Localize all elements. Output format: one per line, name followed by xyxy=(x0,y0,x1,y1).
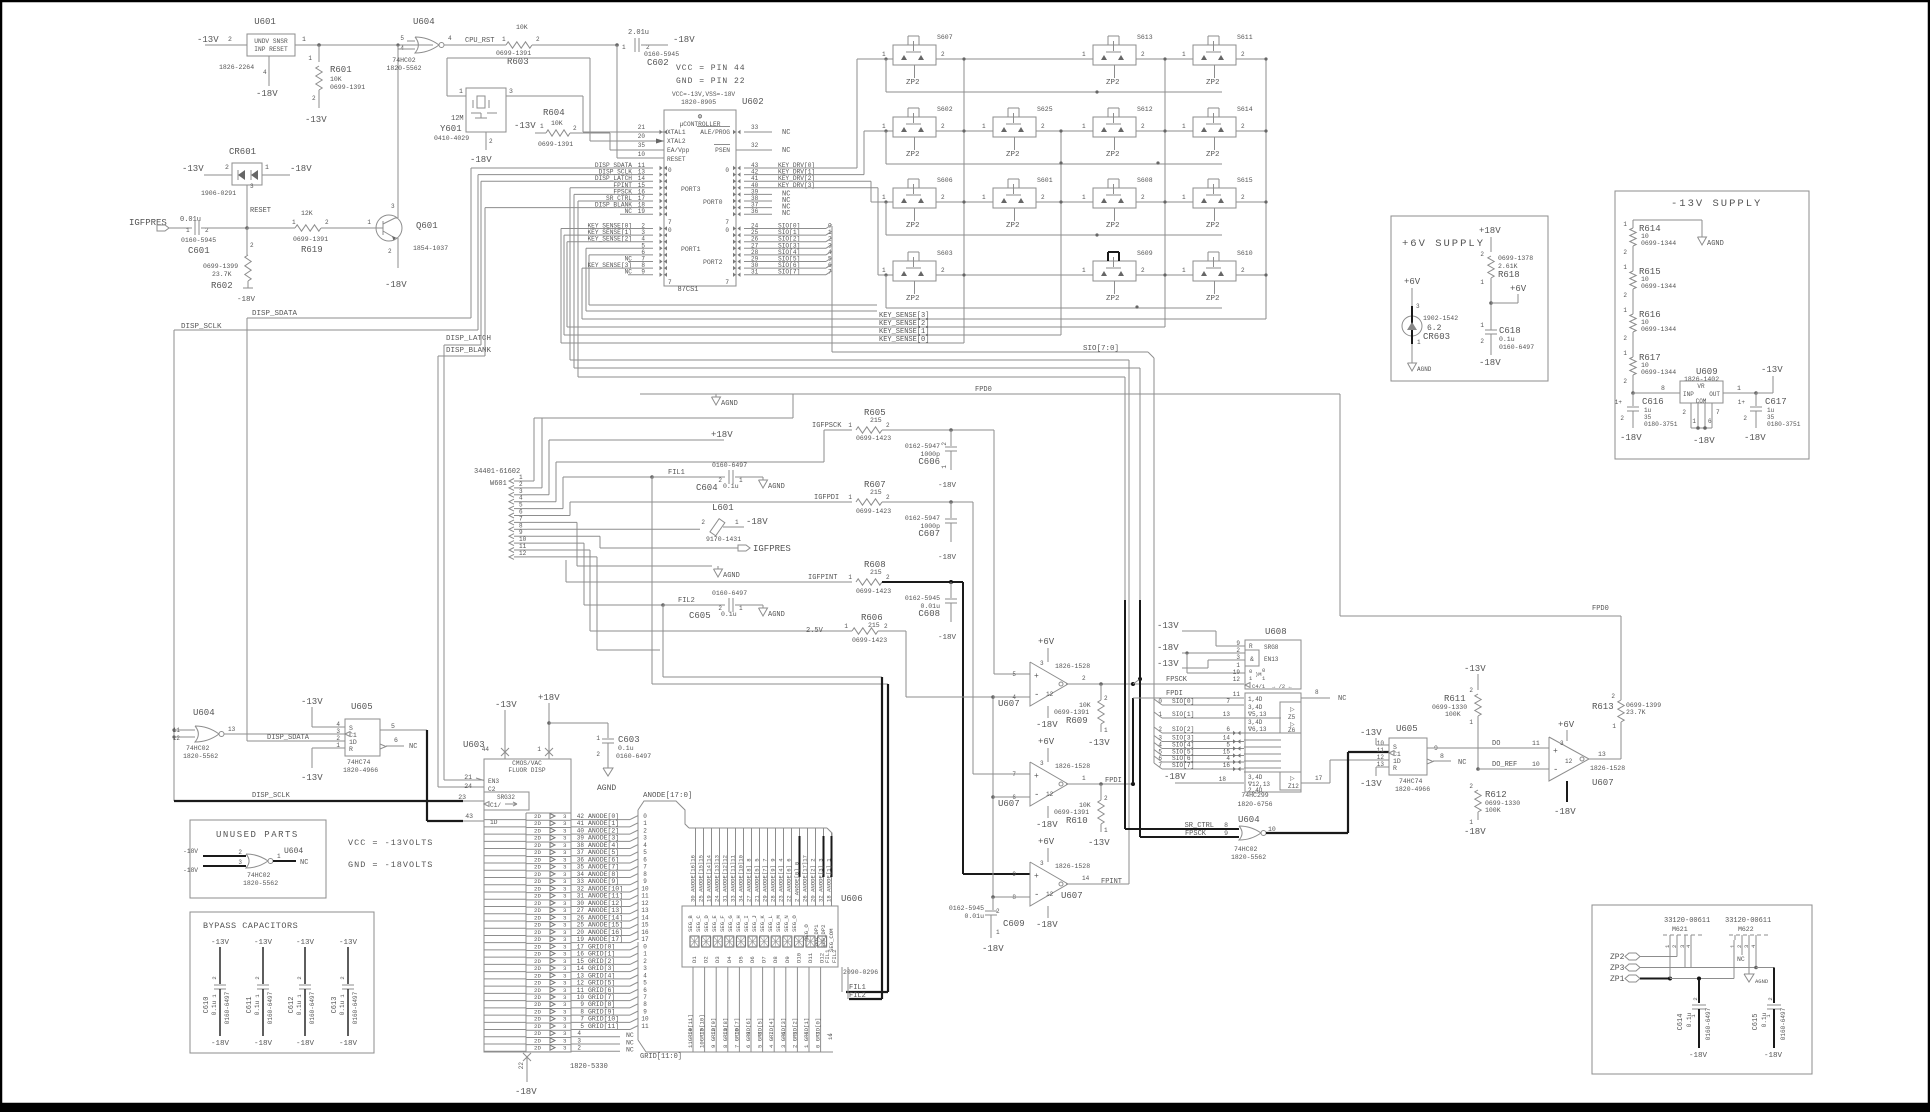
svg-text:215: 215 xyxy=(870,417,882,424)
svg-text:2D: 2D xyxy=(534,972,541,979)
svg-text:+18V: +18V xyxy=(1479,226,1501,236)
svg-text:12: 12 xyxy=(1565,758,1573,765)
svg-text:7: 7 xyxy=(768,1032,775,1035)
wire key matrix columns xyxy=(963,59,965,343)
svg-text:1906-0291: 1906-0291 xyxy=(201,190,236,197)
svg-text:3,4D: 3,4D xyxy=(1248,704,1263,711)
svg-text:3: 3 xyxy=(563,1008,567,1015)
svg-text:DISP_SCLK: DISP_SCLK xyxy=(252,792,291,800)
svg-text:26 ANODE[17]17: 26 ANODE[17]17 xyxy=(802,855,809,902)
svg-text:U607: U607 xyxy=(1061,891,1083,901)
svg-text:2: 2 xyxy=(1141,123,1145,130)
svg-text:XTAL1: XTAL1 xyxy=(667,129,686,136)
svg-text:C603: C603 xyxy=(618,735,640,745)
svg-text:12M: 12M xyxy=(451,115,464,123)
box ZP connectors xyxy=(1592,905,1812,1074)
svg-text:-18V: -18V xyxy=(938,634,957,642)
svg-text:1: 1 xyxy=(1082,775,1086,782)
svg-text:3: 3 xyxy=(563,1037,567,1044)
svg-text:NC: NC xyxy=(782,210,790,218)
svg-text:+6V: +6V xyxy=(1038,737,1055,747)
svg-text:25 ANODE[15]15: 25 ANODE[15]15 xyxy=(698,855,705,902)
key switch S612 xyxy=(1093,117,1136,137)
svg-text:13: 13 xyxy=(228,726,236,733)
svg-text:2D: 2D xyxy=(534,922,541,929)
wire opamp3 inputs xyxy=(993,896,1030,898)
net FIL1 bold vertical xyxy=(887,684,889,992)
svg-text:3: 3 xyxy=(391,203,395,210)
svg-text:21: 21 xyxy=(464,774,472,781)
svg-text:U601: U601 xyxy=(254,17,276,27)
svg-text:2: 2 xyxy=(1241,194,1245,201)
key switch S610 xyxy=(1193,261,1236,281)
wire grid comb 2 xyxy=(715,967,717,1052)
svg-text:ANODE[10]: ANODE[10] xyxy=(588,885,623,892)
svg-text:U604: U604 xyxy=(193,708,215,718)
svg-text:0: 0 xyxy=(643,813,647,820)
wire anode comb 15 xyxy=(815,828,817,906)
svg-text:-13V: -13V xyxy=(296,939,315,947)
svg-text:0.1u: 0.1u xyxy=(296,1000,303,1015)
capacitor C615 xyxy=(1767,1004,1781,1006)
svg-text:1: 1 xyxy=(1469,719,1473,726)
svg-text:3: 3 xyxy=(1040,860,1044,867)
svg-text:74HC02: 74HC02 xyxy=(186,745,210,752)
svg-text:3: 3 xyxy=(336,728,340,735)
pin 8 of W601 xyxy=(509,527,514,532)
svg-text:32: 32 xyxy=(751,142,759,149)
svg-text:12K: 12K xyxy=(301,210,313,217)
pin 2 of W601 xyxy=(509,485,514,490)
svg-text:43: 43 xyxy=(465,813,473,820)
svg-text:3: 3 xyxy=(563,929,567,936)
svg-text:DO_REF: DO_REF xyxy=(1492,761,1517,769)
svg-text:1: 1 xyxy=(459,88,463,95)
svg-text:9: 9 xyxy=(643,1008,647,1015)
svg-text:0699-1391: 0699-1391 xyxy=(496,50,531,57)
svg-text:3: 3 xyxy=(1040,760,1044,767)
svg-text:5: 5 xyxy=(400,35,404,42)
svg-text:2: 2 xyxy=(643,958,647,965)
svg-text:-: - xyxy=(1553,765,1558,775)
svg-text:SIO[0]: SIO[0] xyxy=(1172,698,1194,705)
svg-text:12: 12 xyxy=(1046,891,1054,898)
svg-text:FIL2: FIL2 xyxy=(831,950,838,963)
svg-text:C614: C614 xyxy=(1677,1014,1685,1031)
key switch S606 xyxy=(893,188,936,208)
svg-text:1: 1 xyxy=(982,123,986,130)
svg-text:3: 3 xyxy=(563,1030,567,1037)
svg-text:74HC02: 74HC02 xyxy=(1234,846,1258,853)
svg-text:FIL1: FIL1 xyxy=(824,949,831,963)
pin 11 of W601 xyxy=(509,548,514,553)
svg-text:1: 1 xyxy=(848,494,852,501)
svg-text:2: 2 xyxy=(325,219,329,226)
svg-text:5: 5 xyxy=(580,1023,584,1030)
svg-text:R609: R609 xyxy=(1066,716,1088,726)
wire Y601 pin2 to -18V xyxy=(485,132,487,150)
transistor Q601 xyxy=(376,215,402,241)
svg-text:2: 2 xyxy=(1241,123,1245,130)
svg-text:0180-3751: 0180-3751 xyxy=(1644,421,1678,428)
svg-text:0699-1330: 0699-1330 xyxy=(1432,704,1467,711)
svg-text:C609: C609 xyxy=(1003,919,1025,929)
svg-text:1: 1 xyxy=(1737,385,1741,392)
svg-text:6: 6 xyxy=(780,1032,787,1035)
svg-text:3: 3 xyxy=(563,972,567,979)
svg-text:ZP2: ZP2 xyxy=(1206,79,1220,87)
svg-text:1: 1 xyxy=(1104,827,1108,834)
svg-text:4: 4 xyxy=(643,842,647,849)
svg-text:6: 6 xyxy=(1226,726,1230,733)
wire W601 pin12 xyxy=(527,556,597,558)
svg-text:CPU_RST: CPU_RST xyxy=(465,37,494,45)
wire U601 ground lead xyxy=(268,56,270,86)
svg-text:0699-1423: 0699-1423 xyxy=(856,508,891,515)
svg-text:DISP_LATCH: DISP_LATCH xyxy=(446,335,491,343)
svg-text:∇6,13: ∇6,13 xyxy=(1247,726,1267,733)
svg-text:28 ANODE[9] 9: 28 ANODE[9] 9 xyxy=(770,858,777,902)
svg-text:2: 2 xyxy=(701,519,705,526)
wire DISP_SDATA to U605 xyxy=(247,740,345,742)
svg-text:2: 2 xyxy=(296,976,303,979)
ground AGND top middle xyxy=(715,394,717,397)
svg-text:AGND: AGND xyxy=(723,572,740,580)
svg-text:-18V: -18V xyxy=(254,1040,273,1048)
svg-text:-18V: -18V xyxy=(515,1087,537,1097)
capacitor C617 xyxy=(1755,393,1757,406)
svg-text:0: 0 xyxy=(1262,667,1265,674)
svg-text:ANODE[6]: ANODE[6] xyxy=(588,856,619,863)
svg-text:2: 2 xyxy=(1241,51,1245,58)
ground AGND -13V supply xyxy=(1701,234,1703,237)
svg-text:0.1u: 0.1u xyxy=(254,1000,261,1015)
svg-text:2D: 2D xyxy=(534,893,541,900)
svg-text:1854-1037: 1854-1037 xyxy=(413,245,448,252)
svg-text:0699-1344: 0699-1344 xyxy=(1641,240,1676,247)
svg-text:SEG_G: SEG_G xyxy=(727,915,734,932)
svg-text:R: R xyxy=(1393,765,1397,772)
svg-text:2D: 2D xyxy=(534,820,541,827)
svg-text:CR603: CR603 xyxy=(1423,332,1450,342)
svg-text:+: + xyxy=(1034,872,1039,881)
svg-text:PORT3: PORT3 xyxy=(681,186,701,193)
svg-text:3: 3 xyxy=(563,914,567,921)
svg-text:0699-1423: 0699-1423 xyxy=(856,588,891,595)
svg-text:1820-6756: 1820-6756 xyxy=(1237,801,1272,808)
svg-text:2: 2 xyxy=(1767,997,1774,1000)
svg-text:GND = -18VOLTS: GND = -18VOLTS xyxy=(348,860,433,870)
svg-text:-13V: -13V xyxy=(514,121,536,131)
svg-text:1u: 1u xyxy=(1767,407,1775,414)
svg-text:PORT1: PORT1 xyxy=(681,246,701,253)
svg-text:U603: U603 xyxy=(463,740,485,750)
svg-text:4: 4 xyxy=(643,972,647,979)
svg-text:36: 36 xyxy=(577,856,585,863)
key switch S607 xyxy=(893,45,936,65)
svg-text:NC: NC xyxy=(626,1039,634,1046)
svg-text:D7: D7 xyxy=(761,956,768,963)
svg-text:24: 24 xyxy=(464,783,472,790)
svg-text:0699-1399: 0699-1399 xyxy=(1626,702,1661,709)
svg-text:SIO[4]: SIO[4] xyxy=(1172,742,1194,749)
wire W601 pin1 to FPD0 xyxy=(527,480,534,482)
svg-text:S610: S610 xyxy=(1237,250,1253,257)
svg-text:0699-1399: 0699-1399 xyxy=(203,263,238,270)
svg-text:0162-5947: 0162-5947 xyxy=(905,515,940,522)
pin 4 of W601 xyxy=(509,499,514,504)
resistor R602 xyxy=(246,228,248,255)
key switch S611 xyxy=(1193,45,1236,65)
svg-text:20: 20 xyxy=(577,929,585,936)
svg-text:C617: C617 xyxy=(1765,397,1787,407)
pin 1 of W601 xyxy=(509,479,514,484)
svg-text:1: 1 xyxy=(739,477,743,484)
svg-text:1: 1 xyxy=(1692,418,1696,425)
svg-text:0699-1423: 0699-1423 xyxy=(856,435,891,442)
svg-text:D1: D1 xyxy=(691,956,698,963)
svg-text:9: 9 xyxy=(745,1032,752,1035)
svg-text:3: 3 xyxy=(563,871,567,878)
svg-text:30 ANODE[16]16: 30 ANODE[16]16 xyxy=(690,855,697,902)
svg-text:2: 2 xyxy=(1623,249,1627,256)
svg-text:74HC02: 74HC02 xyxy=(392,57,416,64)
svg-text:37: 37 xyxy=(577,849,585,856)
svg-text:-: - xyxy=(1034,890,1039,900)
svg-text:1: 1 xyxy=(1623,221,1627,228)
svg-text:VR: VR xyxy=(1697,383,1705,390)
svg-text:34 ANODE[10]10: 34 ANODE[10]10 xyxy=(738,854,745,902)
svg-text:19: 19 xyxy=(577,936,585,943)
svg-text:1: 1 xyxy=(941,465,948,469)
svg-text:11: 11 xyxy=(577,987,585,994)
svg-text:-18V: -18V xyxy=(1554,807,1576,817)
svg-text:-18V: -18V xyxy=(1744,433,1766,443)
svg-text:35: 35 xyxy=(577,864,585,871)
svg-text:19 ANODE[14]14: 19 ANODE[14]14 xyxy=(706,854,713,902)
svg-text:3: 3 xyxy=(563,1045,567,1052)
svg-text:2D: 2D xyxy=(534,885,541,892)
wire +6V tap xyxy=(1489,301,1493,305)
svg-text:1820-4966: 1820-4966 xyxy=(343,767,378,774)
svg-text:2: 2 xyxy=(228,36,232,43)
svg-text:1826-1528: 1826-1528 xyxy=(1055,863,1090,870)
svg-text:16: 16 xyxy=(577,951,585,958)
svg-text:+: + xyxy=(1034,772,1039,781)
svg-text:-18V: -18V xyxy=(237,296,256,304)
capacitor C608 xyxy=(950,582,952,598)
svg-text:2D: 2D xyxy=(534,871,541,878)
svg-text:1826-1528: 1826-1528 xyxy=(1055,763,1090,770)
svg-text:0699-1423: 0699-1423 xyxy=(852,637,887,644)
svg-text:18: 18 xyxy=(1219,776,1227,783)
svg-text:2: 2 xyxy=(1141,267,1145,274)
svg-text:ZP2: ZP2 xyxy=(906,151,920,159)
svg-text:5: 5 xyxy=(643,849,647,856)
svg-text:33: 33 xyxy=(751,124,759,131)
wire grid comb 6 xyxy=(762,967,764,1052)
bus ANODE vertical xyxy=(637,810,639,940)
wires U609 COM pins xyxy=(1690,403,1692,428)
svg-text:2: 2 xyxy=(1743,415,1747,422)
svg-text:1: 1 xyxy=(1082,194,1086,201)
pin 6 of W601 xyxy=(509,513,514,518)
svg-text:S: S xyxy=(349,725,353,732)
key switch S609 xyxy=(1093,261,1136,281)
svg-text:+6V: +6V xyxy=(1510,284,1527,294)
svg-text:GRID[0]: GRID[0] xyxy=(588,943,615,950)
svg-text:S613: S613 xyxy=(1137,34,1153,41)
svg-text:AGND: AGND xyxy=(768,483,785,491)
ground AGND C603 xyxy=(603,768,613,776)
svg-text:33 ANODE[11]11: 33 ANODE[11]11 xyxy=(730,854,737,902)
svg-text:3: 3 xyxy=(563,820,567,827)
svg-text:24 ANODE[13]13: 24 ANODE[13]13 xyxy=(714,855,721,902)
svg-text:ZP2: ZP2 xyxy=(1206,151,1220,159)
svg-text:12: 12 xyxy=(577,980,585,987)
svg-text:SEG_D: SEG_D xyxy=(703,915,710,932)
svg-text:0160-5945: 0160-5945 xyxy=(644,51,679,58)
svg-text:1: 1 xyxy=(882,194,886,201)
box +6V SUPPLY xyxy=(1391,216,1548,381)
svg-text:3: 3 xyxy=(563,849,567,856)
svg-text:-13V: -13V xyxy=(301,697,323,707)
svg-text:4: 4 xyxy=(1226,755,1230,762)
svg-text:FPD0: FPD0 xyxy=(1592,605,1609,613)
svg-text:11: 11 xyxy=(1233,691,1241,698)
svg-text:--: -- xyxy=(826,1031,833,1038)
svg-text:-13V: -13V xyxy=(495,700,517,710)
svg-text:R: R xyxy=(349,746,353,753)
svg-text:7: 7 xyxy=(668,279,672,286)
svg-text:ALE/PROG: ALE/PROG xyxy=(700,129,730,136)
capacitor C603 xyxy=(549,722,608,724)
wire key row 2 xyxy=(871,201,893,203)
svg-text:C618: C618 xyxy=(1499,326,1521,336)
svg-text:8: 8 xyxy=(757,1032,764,1035)
svg-text:100K: 100K xyxy=(1485,807,1501,814)
key switch S615 xyxy=(1193,188,1236,208)
wire anode comb 16 xyxy=(823,828,825,906)
svg-text:10: 10 xyxy=(733,1028,740,1035)
svg-text:11: 11 xyxy=(641,893,649,900)
svg-text:NC: NC xyxy=(1458,759,1466,767)
svg-text:12: 12 xyxy=(641,900,649,907)
svg-text:33120-00611: 33120-00611 xyxy=(1664,917,1710,925)
svg-text:RESET: RESET xyxy=(667,156,686,163)
svg-text:GRID[11]: GRID[11] xyxy=(588,1023,619,1030)
svg-text:0160-6497: 0160-6497 xyxy=(1705,1007,1712,1040)
svg-text:SEG_I: SEG_I xyxy=(743,915,750,932)
svg-text:0699-1344: 0699-1344 xyxy=(1641,326,1676,333)
svg-text:VCC = -13VOLTS: VCC = -13VOLTS xyxy=(348,838,433,848)
connector IGFPRES output xyxy=(738,545,750,551)
svg-text:GRID[2]: GRID[2] xyxy=(588,958,615,965)
svg-text:2: 2 xyxy=(596,751,600,758)
svg-text:3: 3 xyxy=(563,951,567,958)
svg-text:35: 35 xyxy=(1644,414,1652,421)
svg-text:9: 9 xyxy=(1224,830,1228,837)
net SR_CTRL bold vertical xyxy=(1124,600,1126,829)
svg-text:7: 7 xyxy=(668,219,672,226)
svg-text:1: 1 xyxy=(1182,267,1186,274)
svg-text:S612: S612 xyxy=(1137,106,1153,113)
svg-text:AGND: AGND xyxy=(1755,978,1769,985)
svg-text:GRID[6]: GRID[6] xyxy=(588,987,615,994)
svg-text:Z6: Z6 xyxy=(1288,727,1296,734)
svg-text:NC: NC xyxy=(300,859,308,867)
svg-text:C1/: C1/ xyxy=(490,802,501,809)
wire U605 pin6 NC xyxy=(380,744,386,749)
svg-text:R602: R602 xyxy=(211,281,233,291)
wire anode comb 12 xyxy=(791,828,793,906)
wire port1 pins 5,6 stubs xyxy=(585,248,587,311)
svg-text:16: 16 xyxy=(641,929,649,936)
svg-text:SEG_K: SEG_K xyxy=(759,915,766,932)
svg-text:0.1u: 0.1u xyxy=(1499,336,1515,343)
svg-text:ZP2: ZP2 xyxy=(1206,222,1220,230)
net FPINT long line xyxy=(569,188,571,360)
svg-text:1: 1 xyxy=(1623,350,1627,357)
svg-text:1: 1 xyxy=(1082,267,1086,274)
svg-text:R619: R619 xyxy=(301,245,323,255)
svg-text:BYPASS CAPACITORS: BYPASS CAPACITORS xyxy=(203,921,298,931)
svg-text:7: 7 xyxy=(725,279,729,286)
svg-text:Q601: Q601 xyxy=(416,221,438,231)
wire anode comb 4 xyxy=(727,828,729,906)
wire anode comb 1 xyxy=(703,828,705,906)
svg-text:SIO[3]: SIO[3] xyxy=(1172,735,1194,742)
svg-text:FPDI: FPDI xyxy=(1105,777,1122,785)
svg-text:SIO[2]: SIO[2] xyxy=(1172,726,1194,733)
net FPD0 main run xyxy=(640,393,1340,395)
key switch S625 xyxy=(993,117,1036,137)
svg-text:1820-5562: 1820-5562 xyxy=(1231,854,1266,861)
net FPSCK long line xyxy=(573,194,575,368)
svg-text:12: 12 xyxy=(1046,691,1054,698)
svg-text:SEG_E: SEG_E xyxy=(711,915,718,932)
svg-text:ZP2: ZP2 xyxy=(1006,222,1020,230)
svg-text:SEG_L: SEG_L xyxy=(767,915,774,932)
svg-text:-13V: -13V xyxy=(1088,838,1110,848)
resistor R619 xyxy=(247,227,295,229)
IC U601 undervoltage sensor xyxy=(247,34,295,56)
svg-text:-18V: -18V xyxy=(1620,433,1642,443)
svg-text:11: 11 xyxy=(641,1023,649,1030)
svg-text:-18V: -18V xyxy=(1036,720,1058,730)
wire W601 pin5 FIL1 xyxy=(527,508,563,510)
svg-text:0160-6497: 0160-6497 xyxy=(616,753,651,760)
svg-text:2: 2 xyxy=(1692,997,1699,1000)
svg-text:GRID[1]: GRID[1] xyxy=(588,951,615,958)
svg-text:SRG8: SRG8 xyxy=(1264,644,1279,651)
svg-text:0410-4029: 0410-4029 xyxy=(434,135,469,142)
svg-text:ANODE[9]: ANODE[9] xyxy=(588,878,619,885)
digit glyphs D1-D12 xyxy=(690,936,699,947)
svg-text:DO: DO xyxy=(1492,740,1500,748)
svg-text:8: 8 xyxy=(643,1001,647,1008)
svg-text:SEG_C: SEG_C xyxy=(695,915,702,932)
svg-text:-18V: -18V xyxy=(1689,1052,1708,1060)
svg-text:ZP2: ZP2 xyxy=(906,295,920,303)
svg-text:XTAL2: XTAL2 xyxy=(667,138,686,145)
svg-text:GRID[3]: GRID[3] xyxy=(588,965,615,972)
svg-text:10: 10 xyxy=(641,1016,649,1023)
svg-text:7: 7 xyxy=(1226,698,1230,705)
svg-text:C4/1: C4/1 xyxy=(1252,683,1266,690)
svg-text:12: 12 xyxy=(1377,754,1385,761)
svg-text:GRID[7]: GRID[7] xyxy=(588,994,615,1001)
